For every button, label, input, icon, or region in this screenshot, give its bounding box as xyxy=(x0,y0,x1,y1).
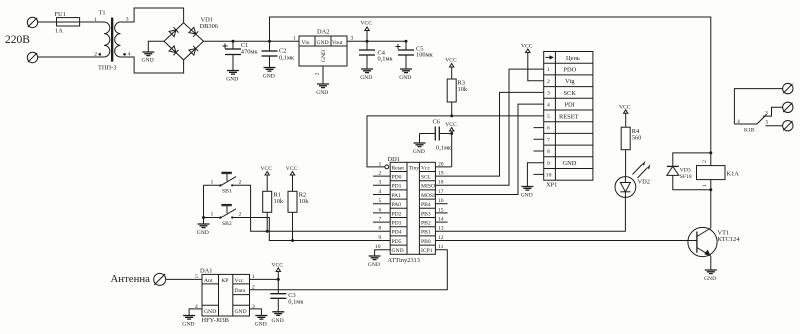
wire bottom terminal to transformer pin2 xyxy=(38,56,104,58)
svg-text:VD2: VD2 xyxy=(638,179,650,186)
svg-text:КТС124: КТС124 xyxy=(718,236,741,243)
svg-text:14: 14 xyxy=(438,217,444,223)
ground XP1 xyxy=(521,187,534,199)
svg-text:2: 2 xyxy=(94,51,97,57)
wire MCU pin13 PB1 to LED xyxy=(435,197,625,231)
svg-text:VD3: VD3 xyxy=(680,167,691,173)
svg-text:0,1мк: 0,1мк xyxy=(288,298,304,305)
power VCC for R2 xyxy=(286,166,298,191)
svg-text:Цепь: Цепь xyxy=(566,55,580,62)
header arrow xyxy=(546,55,554,59)
svg-text:100мк: 100мк xyxy=(416,52,434,59)
wire XP1 GND row9 xyxy=(527,163,543,187)
svg-text:1: 1 xyxy=(379,161,382,167)
svg-text:ТПП-3: ТПП-3 xyxy=(98,65,116,72)
svg-text:GND: GND xyxy=(204,309,216,315)
svg-text:10: 10 xyxy=(546,173,552,179)
svg-text:GND: GND xyxy=(263,74,275,80)
wire MCU pin18 MISO to XP1 PDO xyxy=(435,69,543,185)
svg-text:DB306: DB306 xyxy=(200,23,218,30)
wire bridge left to ground xyxy=(148,41,164,52)
svg-text:2: 2 xyxy=(547,79,550,85)
transformer T1 xyxy=(94,10,131,72)
pin 6 xyxy=(373,212,390,214)
svg-text:GND: GND xyxy=(563,160,577,167)
svg-text:7: 7 xyxy=(547,137,550,143)
svg-text:PD3: PD3 xyxy=(392,221,402,227)
svg-text:20: 20 xyxy=(438,161,444,167)
resistor R3 10k xyxy=(447,79,468,116)
svg-text:4: 4 xyxy=(737,119,740,125)
receiver module DA1 HFY-J03B xyxy=(195,267,255,323)
ground buttons xyxy=(197,224,210,236)
terminal X1 top xyxy=(27,17,37,27)
pin 16 xyxy=(435,203,447,205)
svg-text:16: 16 xyxy=(438,198,444,204)
svg-text:GND: GND xyxy=(360,75,372,81)
svg-text:VCC: VCC xyxy=(361,21,373,27)
power VCC for XP1 Vtg xyxy=(521,44,544,81)
svg-text:PB2: PB2 xyxy=(421,221,431,227)
svg-text:GND: GND xyxy=(182,322,194,328)
svg-text:VCC: VCC xyxy=(521,44,533,50)
ground (bridge minus) xyxy=(142,52,155,64)
transistor VT1 xyxy=(688,227,740,270)
phase dot secondary xyxy=(123,53,126,56)
svg-text:1: 1 xyxy=(94,17,97,23)
svg-text:MISO: MISO xyxy=(421,184,435,190)
node RESET junction R3 xyxy=(450,114,453,117)
wire top terminal to fuse to transformer pin1 xyxy=(38,21,104,23)
svg-text:3: 3 xyxy=(351,36,354,42)
resistor R4 560 xyxy=(621,127,641,176)
svg-text:1: 1 xyxy=(211,179,214,185)
core xyxy=(111,18,113,62)
svg-text:1: 1 xyxy=(547,67,550,73)
svg-text:GND: GND xyxy=(413,149,425,155)
svg-text:1: 1 xyxy=(702,184,708,187)
svg-text:Reset: Reset xyxy=(392,165,405,171)
svg-text:1: 1 xyxy=(293,36,296,42)
wire MCU pin19 SCK to XP1 xyxy=(435,92,543,176)
power VCC for R4 xyxy=(619,104,631,127)
node junction SB2 common xyxy=(202,216,205,219)
relay coil K1A xyxy=(697,160,740,228)
svg-text:PB1: PB1 xyxy=(421,230,431,236)
svg-text:VCC: VCC xyxy=(272,263,284,269)
svg-text:PDI: PDI xyxy=(565,102,575,109)
wire DA1 GND pin4 xyxy=(189,309,202,316)
svg-text:GND: GND xyxy=(255,322,267,328)
svg-text:MOSI: MOSI xyxy=(421,193,435,199)
node junction R2/PD5 xyxy=(291,239,294,242)
svg-text:GND: GND xyxy=(317,40,329,46)
terminal antenna xyxy=(154,273,166,285)
svg-text:VCC: VCC xyxy=(619,104,631,110)
svg-text:K1A: K1A xyxy=(727,171,740,178)
svg-text:0,1мк: 0,1мк xyxy=(436,145,452,152)
svg-text:GND: GND xyxy=(399,75,411,81)
connector XP1 xyxy=(534,52,593,189)
svg-text:K1B: K1B xyxy=(744,128,755,134)
capacitor C6 0.1uF xyxy=(420,119,453,152)
svg-text:DA2: DA2 xyxy=(317,29,329,36)
svg-text:PD0: PD0 xyxy=(392,175,402,181)
svg-text:4: 4 xyxy=(379,189,382,195)
svg-text:XP1: XP1 xyxy=(546,182,557,189)
svg-text:ICP1: ICP1 xyxy=(421,248,433,254)
fuse FU1 xyxy=(55,11,80,35)
svg-text:GND: GND xyxy=(316,90,328,96)
svg-text:КР: КР xyxy=(222,278,229,284)
node junction R1/PD4 xyxy=(266,230,269,233)
capacitor C1 470uF xyxy=(223,41,259,70)
svg-text:SB2: SB2 xyxy=(222,221,232,227)
resistor R1 10k xyxy=(263,191,284,231)
svg-text:Vcc: Vcc xyxy=(421,165,431,171)
wire bridge plus rail to DA2 Vin xyxy=(204,40,300,42)
pin 14 xyxy=(435,221,447,223)
button SB1 xyxy=(204,172,391,231)
svg-text:15: 15 xyxy=(438,207,444,213)
svg-text:PD4: PD4 xyxy=(392,230,402,236)
wire MCU pin17 MOSI to XP1 PDI xyxy=(435,104,543,194)
svg-text:0,1мк: 0,1мк xyxy=(279,54,295,61)
wire DA2 Vout VCC rail xyxy=(347,40,406,42)
svg-text:5: 5 xyxy=(379,198,382,204)
resistor R2 10k xyxy=(288,191,309,240)
svg-text:GND: GND xyxy=(521,193,533,199)
svg-text:7: 7 xyxy=(379,217,382,223)
relay contacts K1B xyxy=(734,89,782,134)
svg-text:2: 2 xyxy=(379,171,382,177)
svg-text:C6: C6 xyxy=(433,119,440,126)
voltage regulator DA2 xyxy=(293,29,354,85)
wire MCU pin11 ICP1 to DA1 Data xyxy=(250,250,448,290)
svg-text:470мк: 470мк xyxy=(241,49,259,56)
pin 4 xyxy=(373,194,390,196)
svg-text:VCC: VCC xyxy=(445,122,457,128)
svg-text:GND: GND xyxy=(321,50,327,62)
pin 3 xyxy=(373,184,390,186)
ground C6 xyxy=(413,143,426,155)
pin 10 xyxy=(375,250,391,256)
capacitor C4 0.1uF xyxy=(359,41,394,69)
ground C5 xyxy=(399,69,412,81)
svg-text:4: 4 xyxy=(547,102,550,108)
pin stubs rows 6-8 and 10 xyxy=(534,128,544,175)
capacitor C5 100uF xyxy=(396,41,434,69)
svg-text:10k: 10k xyxy=(274,198,284,205)
svg-text:Ant: Ant xyxy=(204,278,213,284)
svg-text:5: 5 xyxy=(766,120,769,126)
svg-text:SCL: SCL xyxy=(421,175,432,181)
wire DA1 Vcc pin1 xyxy=(250,278,279,280)
node junction C2 / top rail xyxy=(268,40,271,43)
power VCC for R3 xyxy=(445,58,457,80)
svg-text:2: 2 xyxy=(315,72,321,75)
terminal X1 bottom xyxy=(27,52,37,62)
svg-text:2: 2 xyxy=(239,212,242,218)
ground DA2 pin2 xyxy=(316,84,329,96)
svg-text:T1: T1 xyxy=(99,10,106,17)
svg-text:GND: GND xyxy=(392,248,404,254)
pin 1 bubble xyxy=(385,165,389,169)
svg-text:PB3: PB3 xyxy=(421,211,431,217)
pin 7 xyxy=(373,221,390,223)
capacitor C2 0.1uF xyxy=(262,41,296,67)
node junction C6 tap xyxy=(450,132,453,135)
node junction C5 xyxy=(405,40,408,43)
svg-text:FU1: FU1 xyxy=(55,11,66,18)
svg-text:GND: GND xyxy=(272,318,284,324)
svg-text:VCC: VCC xyxy=(286,166,298,172)
svg-text:560: 560 xyxy=(632,135,642,142)
primary winding xyxy=(104,22,110,57)
svg-text:Vin: Vin xyxy=(302,40,310,46)
svg-text:2: 2 xyxy=(252,285,255,291)
svg-text:GND: GND xyxy=(197,230,209,236)
svg-text:10: 10 xyxy=(375,244,381,250)
svg-text:8: 8 xyxy=(547,149,550,155)
svg-text:3: 3 xyxy=(547,91,550,97)
power VCC for DA1 xyxy=(272,263,284,294)
svg-text:HFY-J03B: HFY-J03B xyxy=(202,317,229,324)
svg-text:Tiny: Tiny xyxy=(409,165,420,171)
svg-text:2: 2 xyxy=(239,179,242,185)
svg-text:PA0: PA0 xyxy=(392,202,402,208)
node junction VCC/C4 xyxy=(366,40,369,43)
pin 20 xyxy=(435,166,451,168)
svg-text:5: 5 xyxy=(195,274,198,280)
svg-text:Data: Data xyxy=(235,288,246,294)
ground C2 xyxy=(263,68,276,80)
button SB2 xyxy=(204,205,391,241)
power VCC main xyxy=(361,21,373,42)
svg-text:GND: GND xyxy=(226,77,238,83)
ground MCU pin10 xyxy=(368,256,381,268)
svg-text:220В: 220В xyxy=(5,34,30,46)
pin 2 xyxy=(373,175,390,177)
svg-text:PDO: PDO xyxy=(564,67,577,74)
terminal K1B out bottom xyxy=(783,121,793,131)
node junction VD3 top xyxy=(709,151,712,154)
terminal K1B out middle xyxy=(783,102,793,112)
svg-text:3: 3 xyxy=(765,110,768,116)
wire buttons common xyxy=(203,185,205,224)
ground VT1 emitter xyxy=(704,270,717,282)
svg-text:GND: GND xyxy=(704,276,716,282)
svg-text:1: 1 xyxy=(211,212,214,218)
svg-text:GND: GND xyxy=(235,309,247,315)
power VCC for MCU xyxy=(445,122,457,167)
secondary winding xyxy=(115,22,121,57)
svg-text:GND: GND xyxy=(142,58,154,64)
svg-text:1A: 1A xyxy=(55,28,63,35)
phase dot primary xyxy=(99,53,102,56)
svg-text:DA1: DA1 xyxy=(200,267,212,274)
ground DA1 left xyxy=(182,316,195,328)
svg-text:PB0: PB0 xyxy=(421,239,431,245)
svg-text:6: 6 xyxy=(379,207,382,213)
wire top rectified rail xyxy=(270,17,711,166)
bridge rectifier VD1 DB306 xyxy=(164,16,218,60)
svg-text:VCC: VCC xyxy=(261,166,273,172)
svg-text:PD1: PD1 xyxy=(392,184,402,190)
svg-text:3: 3 xyxy=(379,180,382,186)
ground C3 xyxy=(272,312,285,324)
svg-text:5: 5 xyxy=(547,114,550,120)
svg-text:PB4: PB4 xyxy=(421,202,431,208)
node junction VD3 bottom xyxy=(709,188,712,191)
svg-text:Антенна: Антенна xyxy=(111,273,151,285)
wire DA1 GND pin3 xyxy=(250,309,262,316)
capacitor C3 0.1uF xyxy=(270,292,304,312)
svg-text:VCC: VCC xyxy=(445,58,457,64)
ground C4 xyxy=(360,69,373,81)
svg-text:10k: 10k xyxy=(299,198,309,205)
wire MCU pin12 PB0 to transistor base xyxy=(435,240,697,242)
diode VD3 SF18 xyxy=(667,153,711,190)
node junction C1 xyxy=(232,40,235,43)
wire secondary pin3 to bridge top xyxy=(121,8,184,23)
svg-text:SCK: SCK xyxy=(564,90,577,97)
svg-text:0,1мк: 0,1мк xyxy=(378,56,394,63)
wire secondary pin4 to bridge bottom xyxy=(121,57,184,73)
svg-text:Vtg: Vtg xyxy=(565,78,575,85)
pin 15 xyxy=(435,212,447,214)
MCU DD1 ATTiny2313 xyxy=(373,156,452,264)
svg-text:9: 9 xyxy=(547,161,550,167)
svg-text:6: 6 xyxy=(547,126,550,132)
pin 5 xyxy=(373,203,390,205)
svg-text:2: 2 xyxy=(702,160,708,163)
node junction DA1 VCC xyxy=(277,278,280,281)
svg-text:PA1: PA1 xyxy=(392,193,402,199)
svg-text:RESET: RESET xyxy=(559,113,579,120)
svg-text:ATTiny2313: ATTiny2313 xyxy=(388,257,420,264)
power VCC for R1 xyxy=(261,166,273,191)
svg-text:GND: GND xyxy=(368,262,380,268)
terminal K1B out top xyxy=(783,83,793,93)
ground C1 xyxy=(226,71,239,83)
svg-text:SB1: SB1 xyxy=(222,189,232,195)
svg-text:Vcc: Vcc xyxy=(235,278,245,284)
svg-text:PD2: PD2 xyxy=(392,211,402,217)
wire RESET net xyxy=(367,116,544,167)
ground DA1 right xyxy=(255,316,268,328)
svg-text:Vout: Vout xyxy=(332,40,343,46)
svg-text:10k: 10k xyxy=(458,86,468,93)
wire antenna to DA1 xyxy=(166,278,202,280)
svg-text:PD5: PD5 xyxy=(392,239,402,245)
svg-text:SF18: SF18 xyxy=(680,174,692,180)
LED VD2 xyxy=(615,161,651,198)
